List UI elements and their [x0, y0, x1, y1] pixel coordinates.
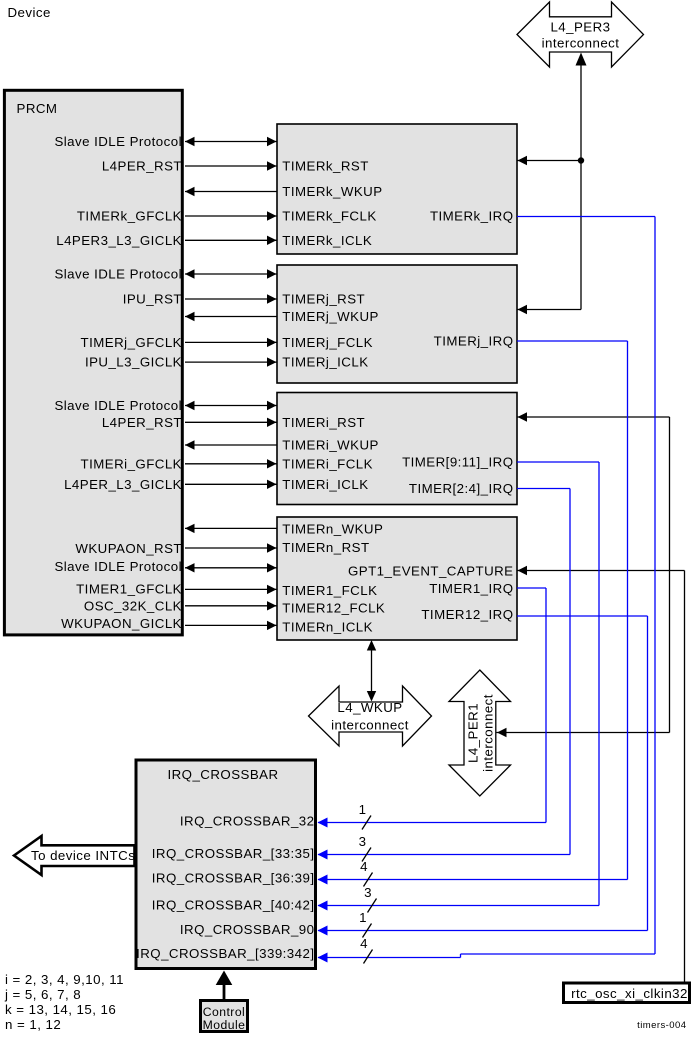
wire Slave IDLE Protocol (TIMERi) double arrow — [185, 401, 277, 410]
label L4PER_L3_GICLK — [64, 477, 182, 492]
svg-text:Control: Control — [203, 1005, 245, 1019]
svg-text:TIMERn_WKUP: TIMERn_WKUP — [282, 521, 383, 536]
wire TIMERk_IRQ to IRQ_CROSSBAR_[339:342] (blue, with jog) — [318, 217, 656, 963]
svg-text:IRQ_CROSSBAR_90: IRQ_CROSSBAR_90 — [180, 922, 315, 937]
svg-text:IRQ_CROSSBAR_32: IRQ_CROSSBAR_32 — [180, 814, 315, 829]
svg-text:TIMERn_RST: TIMERn_RST — [282, 540, 369, 555]
TIMERj box — [277, 265, 517, 383]
wire WKUPAON_GICLK to TIMERn_ICLK — [185, 621, 277, 630]
wire TIMERj_WKUP to PRCM — [185, 312, 277, 321]
svg-text:TIMERk_ICLK: TIMERk_ICLK — [282, 233, 372, 248]
label timers-004 — [637, 1020, 686, 1031]
svg-text:IRQ_CROSSBAR_[33:35]: IRQ_CROSSBAR_[33:35] — [152, 846, 315, 861]
bus width 1 slash (IRQ_CROSSBAR_90) — [359, 910, 371, 938]
svg-text:TIMERk_GFCLK: TIMERk_GFCLK — [77, 209, 182, 224]
wire TIMER1_GFCLK to TIMER1_FCLK — [185, 585, 277, 594]
Control Module box — [201, 1001, 248, 1033]
svg-text:interconnect: interconnect — [331, 717, 409, 732]
wire Control Module to IRQ_CROSSBAR — [216, 971, 233, 1000]
svg-text:TIMERj_WKUP: TIMERj_WKUP — [282, 309, 379, 324]
wire TIMERj_IRQ to IRQ_CROSSBAR_[36:39] (blue) — [318, 341, 628, 885]
bus width 3 slash (IRQ_CROSSBAR_[40:42]) — [364, 885, 376, 913]
svg-text:L4PER3_L3_GICLK: L4PER3_L3_GICLK — [56, 233, 182, 248]
wire TIMER[2:4]_IRQ to IRQ_CROSSBAR_[33:35] (blue) — [318, 489, 571, 860]
svg-text:L4_WKUP: L4_WKUP — [337, 700, 402, 715]
svg-text:TIMER[9:11]_IRQ: TIMER[9:11]_IRQ — [402, 455, 513, 470]
svg-text:Slave IDLE Protocol: Slave IDLE Protocol — [54, 559, 182, 574]
svg-text:TIMERj_FCLK: TIMERj_FCLK — [282, 335, 373, 350]
svg-text:TIMER[2:4]_IRQ: TIMER[2:4]_IRQ — [409, 481, 514, 496]
svg-text:timers-004: timers-004 — [637, 1020, 686, 1031]
wire TIMER[9:11]_IRQ to IRQ_CROSSBAR_[40:42] (blue) — [318, 462, 600, 911]
bus width 1 slash (IRQ_CROSSBAR_32) — [359, 802, 371, 830]
wire Slave IDLE Protocol (TIMERk) double arrow — [185, 137, 277, 146]
svg-text:1: 1 — [359, 802, 367, 817]
label TIMERk_GFCLK — [77, 209, 182, 224]
svg-text:TIMERj_RST: TIMERj_RST — [282, 292, 365, 307]
label Slave IDLE Protocol (TIMERi) — [54, 398, 182, 413]
wire L4_PER3 to TIMERk and TIMERj (vertical with branch) — [517, 53, 587, 315]
svg-text:TIMER1_IRQ: TIMER1_IRQ — [429, 581, 513, 596]
svg-text:L4PER_L3_GICLK: L4PER_L3_GICLK — [64, 477, 182, 492]
To device INTCs arrow — [14, 836, 135, 875]
wire L4PER_L3_GICLK to TIMERi_ICLK — [185, 480, 277, 489]
svg-text:TIMERi_WKUP: TIMERi_WKUP — [282, 438, 379, 453]
label Slave IDLE Protocol (TIMERk) — [54, 134, 182, 149]
label Device — [8, 5, 51, 20]
svg-text:GPT1_EVENT_CAPTURE: GPT1_EVENT_CAPTURE — [348, 563, 514, 578]
svg-text:TIMERk_WKUP: TIMERk_WKUP — [282, 184, 382, 199]
wire IPU_RST to TIMERj_RST — [185, 294, 277, 303]
label IPU_RST — [123, 292, 182, 307]
svg-text:IPU_RST: IPU_RST — [123, 292, 182, 307]
svg-text:TIMERk_FCLK: TIMERk_FCLK — [282, 209, 376, 224]
svg-text:Slave IDLE Protocol: Slave IDLE Protocol — [54, 267, 182, 282]
wire TIMERj_GFCLK to TIMERj_FCLK — [185, 338, 277, 347]
note n values — [5, 1017, 61, 1032]
svg-text:TIMERi_FCLK: TIMERi_FCLK — [282, 456, 373, 471]
svg-text:TIMERk_RST: TIMERk_RST — [282, 159, 369, 174]
svg-text:3: 3 — [364, 885, 372, 900]
IRQ_CROSSBAR box — [136, 760, 316, 969]
wire L4_PER1 to TIMERi (two-headed L path) — [497, 412, 670, 737]
note k values — [5, 1002, 116, 1017]
label IPU_L3_GICLK — [85, 355, 182, 370]
bus width 4 slash (IRQ_CROSSBAR_[36:39]) — [360, 859, 372, 887]
label Slave IDLE Protocol (TIMERj) — [54, 267, 182, 282]
svg-text:IPU_L3_GICLK: IPU_L3_GICLK — [85, 355, 182, 370]
svg-text:TIMERk_IRQ: TIMERk_IRQ — [430, 209, 514, 224]
label WKUPAON_RST — [75, 541, 182, 556]
svg-text:TIMERj_ICLK: TIMERj_ICLK — [282, 355, 368, 370]
wire OSC_32K_CLK to TIMER12_FCLK — [185, 601, 277, 610]
wire TIMERk_WKUP to PRCM — [185, 187, 277, 196]
svg-text:TIMERj_GFCLK: TIMERj_GFCLK — [81, 335, 182, 350]
TIMERk box — [277, 124, 517, 254]
label L4PER_RST (TIMERk) — [102, 159, 182, 174]
svg-text:IRQ_CROSSBAR: IRQ_CROSSBAR — [167, 767, 278, 782]
svg-text:1: 1 — [359, 910, 367, 925]
bus width 3 slash (IRQ_CROSSBAR_[33:35]) — [359, 834, 371, 862]
note j values — [4, 987, 81, 1002]
svg-text:interconnect: interconnect — [481, 694, 496, 772]
svg-text:To device INTCs: To device INTCs — [31, 848, 135, 863]
svg-text:4: 4 — [360, 859, 368, 874]
label TIMERi_GFCLK — [81, 456, 182, 471]
wire Slave IDLE Protocol (TIMERn) double arrow — [185, 563, 277, 572]
svg-text:TIMERn_ICLK: TIMERn_ICLK — [282, 620, 373, 635]
svg-text:TIMER12_IRQ: TIMER12_IRQ — [421, 607, 513, 622]
svg-text:IRQ_CROSSBAR_[36:39]: IRQ_CROSSBAR_[36:39] — [152, 871, 315, 886]
svg-text:TIMER1_FCLK: TIMER1_FCLK — [282, 583, 377, 598]
svg-text:TIMERj_IRQ: TIMERj_IRQ — [434, 334, 514, 349]
svg-text:Slave IDLE Protocol: Slave IDLE Protocol — [54, 398, 182, 413]
label WKUPAON_GICLK — [61, 616, 182, 631]
svg-text:PRCM: PRCM — [17, 101, 58, 116]
wire TIMERi_GFCLK to TIMERi_FCLK — [185, 459, 277, 468]
svg-text:Slave IDLE Protocol: Slave IDLE Protocol — [54, 134, 182, 149]
wire WKUPAON_RST to TIMERn_RST — [185, 543, 277, 552]
TIMERn box — [277, 517, 517, 640]
label TIMERj_GFCLK — [81, 335, 182, 350]
svg-text:i = 2, 3, 4, 9,10, 11: i = 2, 3, 4, 9,10, 11 — [5, 972, 124, 987]
wire TIMERi_WKUP to PRCM — [185, 440, 277, 449]
svg-text:k = 13, 14, 15, 16: k = 13, 14, 15, 16 — [5, 1002, 116, 1017]
svg-text:Module: Module — [203, 1018, 246, 1032]
svg-text:L4_PER3: L4_PER3 — [550, 20, 610, 35]
L4_PER1 interconnect double-arrow — [449, 670, 511, 796]
wire L4PER_RST to TIMERi_RST — [185, 418, 277, 427]
wire Slave IDLE Protocol (TIMERj) double arrow — [185, 269, 277, 278]
svg-text:TIMER12_FCLK: TIMER12_FCLK — [282, 600, 385, 615]
svg-text:4: 4 — [360, 936, 368, 951]
label Slave IDLE Protocol (TIMERn) — [54, 559, 182, 574]
svg-text:WKUPAON_GICLK: WKUPAON_GICLK — [61, 616, 182, 631]
svg-text:Device: Device — [8, 5, 51, 20]
svg-text:L4PER_RST: L4PER_RST — [102, 159, 182, 174]
svg-text:rtc_osc_xi_clkin32: rtc_osc_xi_clkin32 — [571, 986, 688, 1001]
L4_WKUP interconnect double-arrow — [309, 686, 432, 746]
svg-text:TIMERi_GFCLK: TIMERi_GFCLK — [81, 456, 182, 471]
wire rtc_osc_xi_clkin32 to GPT1_EVENT_CAPTURE — [517, 566, 685, 982]
wire TIMER1_IRQ to IRQ_CROSSBAR_32 (blue) — [318, 588, 547, 828]
wire IPU_L3_GICLK to TIMERj_ICLK — [185, 357, 277, 366]
svg-text:3: 3 — [359, 834, 367, 849]
label TIMER1_GFCLK — [76, 582, 182, 597]
wire L4PER_RST to TIMERk_RST — [185, 161, 277, 170]
svg-text:TIMERi_ICLK: TIMERi_ICLK — [282, 477, 368, 492]
wire TIMERn_WKUP to PRCM — [185, 524, 277, 533]
svg-text:j = 5, 6, 7, 8: j = 5, 6, 7, 8 — [4, 987, 81, 1002]
bus width 4 slash (IRQ_CROSSBAR_[339:342]) — [360, 936, 372, 964]
svg-text:WKUPAON_RST: WKUPAON_RST — [75, 541, 182, 556]
svg-text:OSC_32K_CLK: OSC_32K_CLK — [84, 599, 182, 614]
svg-text:TIMERi_RST: TIMERi_RST — [282, 415, 365, 430]
svg-text:TIMER1_GFCLK: TIMER1_GFCLK — [76, 582, 182, 597]
svg-text:IRQ_CROSSBAR_[40:42]: IRQ_CROSSBAR_[40:42] — [152, 898, 315, 913]
svg-text:L4_PER1: L4_PER1 — [466, 703, 481, 763]
wire TIMER12_IRQ to IRQ_CROSSBAR_90 (blue) — [318, 616, 648, 936]
wire TIMERk_GFCLK to TIMERk_FCLK — [185, 211, 277, 220]
svg-text:interconnect: interconnect — [542, 36, 620, 51]
rtc_osc_xi_clkin32 box — [564, 983, 690, 1003]
svg-text:L4PER_RST: L4PER_RST — [102, 415, 182, 430]
svg-text:n = 1, 12: n = 1, 12 — [5, 1017, 61, 1032]
svg-text:IRQ_CROSSBAR_[339:342]: IRQ_CROSSBAR_[339:342] — [136, 946, 314, 961]
note i values — [5, 972, 124, 987]
label OSC_32K_CLK — [84, 599, 182, 614]
TIMERi box — [277, 393, 517, 505]
L4_PER3 interconnect double-arrow — [517, 2, 644, 67]
wire L4PER3_L3_GICLK to TIMERk_ICLK — [185, 236, 277, 245]
label L4PER_RST (TIMERi) — [102, 415, 182, 430]
PRCM box — [4, 90, 182, 635]
wire TIMERn to L4_WKUP interconnect (double arrow) — [367, 640, 376, 702]
label L4PER3_L3_GICLK — [56, 233, 182, 248]
